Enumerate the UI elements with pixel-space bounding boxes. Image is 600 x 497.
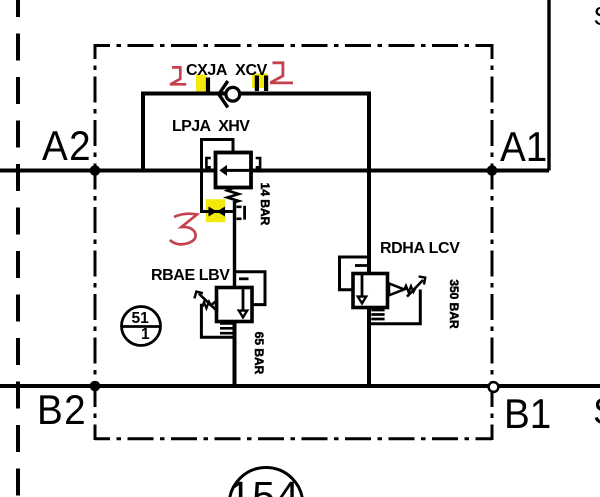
wire A-line horizontal [0,169,549,173]
balloon text 51 over 1 [132,310,149,328]
partial S top right [594,1,600,32]
wire RDHA spring loop right [369,290,420,324]
highlight over CXJA left port [196,75,207,93]
LPJA port bracket left [206,158,210,167]
RDHA spring triangle at right port [389,284,404,296]
wire top branch with left drop and right drop [143,94,369,387]
balloon text 154 [229,473,300,497]
node A1 junction [487,165,498,176]
partial S bottom right [593,391,600,433]
label RDHA LCV [380,240,459,258]
port label B1 [504,390,551,438]
balloon 51/1 [122,307,161,346]
LPJA spring below body [227,188,238,203]
port tick left of check valve [206,78,210,93]
RBAE spring bars below body [220,323,233,333]
wire B-line horizontal [0,384,600,388]
port tick 1 right of check valve [255,76,259,92]
RDHA spring zigzag [404,286,415,293]
wire LPJA pilot loop [202,140,237,212]
node B1 junction open [489,382,499,392]
RDHA spring bars below body [371,310,384,319]
RBAE adjustment arrow [199,294,216,310]
RDHA pilot port tick [355,264,367,267]
highlight over LPJA orifice [206,199,226,222]
RBAE spring zigzag [203,302,211,309]
LPJA drain port tick [243,206,246,220]
port label A2 [42,122,92,170]
check valve seat V [219,81,228,107]
red annotation 2 right [270,63,293,83]
wire RBAE spring loop left [201,305,236,337]
label LPJA XHV [172,118,249,136]
outer dashed boundary left [16,0,20,497]
valve RDHA LCV body [353,274,388,308]
wire right riser to top edge [547,0,550,171]
LPJA internal arrow [227,169,251,172]
wire RBAE pilot loop right [235,272,266,305]
check valve CXJA XCV circle [226,87,240,101]
node A2 junction [90,165,101,176]
border dash-dot right [491,44,494,440]
valve LPJA XHV body [216,153,252,188]
balloon 154 [229,468,303,497]
label 14 BAR rotated [258,183,272,226]
label 350 BAR rotated [447,279,461,328]
label CXJA XCV [186,62,267,80]
RDHA adjustment arrow [407,280,423,297]
port label A1 [500,123,547,171]
border dash-dot bottom [95,437,492,440]
valve RBAE LBV body [217,288,253,322]
highlight over CXJA right ports [252,74,268,89]
wire RBAE drain down to B-line [233,321,237,386]
wire LPJA drain down to RBAE [233,201,236,288]
label 65 BAR rotated [252,331,266,374]
port tick 2 right of check valve [264,76,268,92]
wire RDHA pilot loop left [340,257,370,290]
red annotation 3 [170,214,197,245]
border dash-dot left [94,44,97,440]
RBAE pilot port tick [239,277,249,280]
LPJA drain port serifs [237,207,242,219]
RBAE spring triangle at left port [211,300,217,310]
orifice bowtie on LPJA pilot return [209,207,226,217]
RBAE internal arrow [242,289,245,311]
LPJA port bracket right [256,158,260,167]
RDHA internal arrow [361,275,364,297]
border dash-dot top [95,44,492,47]
node B2 junction [90,381,101,392]
red annotation 2 left [170,67,186,84]
label RBAE LBV [151,267,230,285]
port label B2 [37,386,87,434]
